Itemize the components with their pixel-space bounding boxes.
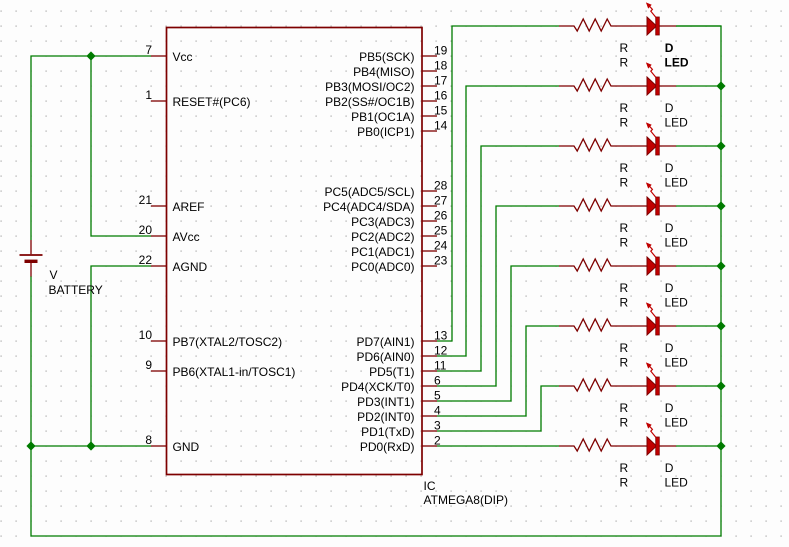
svg-text:LED: LED (665, 176, 689, 190)
svg-text:AGND: AGND (173, 260, 208, 274)
junction right rail at row 7 (716, 381, 725, 390)
wire PD2 pin to LED row 6 (437, 326, 559, 416)
svg-text:D: D (665, 41, 674, 55)
pin 24 PC1(ADC1) (right) (351, 239, 448, 260)
junction right rail at row 5 (716, 261, 725, 270)
svg-text:5: 5 (434, 389, 441, 403)
pin 23 PC0(ADC0) (right) (351, 254, 448, 275)
pin 26 PC3(ADC3) (right) (351, 209, 448, 230)
svg-text:22: 22 (139, 253, 153, 267)
svg-text:2: 2 (434, 434, 441, 448)
svg-text:PD6(AIN0): PD6(AIN0) (356, 350, 414, 364)
junction VCC node at (91,56) (86, 51, 95, 60)
svg-text:R: R (620, 296, 629, 310)
svg-text:Vcc: Vcc (173, 50, 193, 64)
junction right rail at row 6 (716, 321, 725, 330)
pin 21 AREF (left) (139, 193, 205, 214)
svg-text:PD3(INT1): PD3(INT1) (357, 395, 414, 409)
svg-text:11: 11 (434, 359, 447, 373)
pin 6 PD4(XCK/T0) (right) (341, 374, 441, 395)
svg-text:D: D (665, 401, 674, 415)
svg-text:PB4(MISO): PB4(MISO) (353, 65, 414, 79)
resistor R (row 8) (559, 439, 647, 451)
svg-text:PD5(T1): PD5(T1) (369, 365, 414, 379)
svg-text:PD2(INT0): PD2(INT0) (357, 410, 414, 424)
wire VCC: battery + to pin 7 Vcc (31, 56, 151, 240)
pin 9 PB6(XTAL1-in/TOSC1) (left) (145, 358, 295, 379)
svg-text:PB2(SS#/OC1B): PB2(SS#/OC1B) (325, 95, 414, 109)
svg-text:RESET#(PC6): RESET#(PC6) (173, 95, 251, 109)
pin 7 Vcc (left) (145, 43, 192, 64)
svg-text:4: 4 (434, 404, 441, 418)
svg-text:R: R (620, 56, 629, 70)
svg-text:26: 26 (434, 209, 448, 223)
svg-text:R: R (620, 176, 629, 190)
IC ATMEGA8(DIP) body (167, 28, 423, 475)
svg-text:PD4(XCK/T0): PD4(XCK/T0) (341, 380, 414, 394)
wire VCC branch to AVcc pin 20 (91, 56, 151, 236)
svg-text:15: 15 (434, 104, 448, 118)
pin 14 PB0(ICP1) (right) (357, 119, 448, 140)
pin 8 GND (left) (145, 433, 199, 454)
wire LED row 7 cathode to right rail (676, 385, 721, 387)
svg-text:PD0(RxD): PD0(RxD) (360, 440, 415, 454)
svg-text:24: 24 (434, 239, 448, 253)
LED D (row 8) (646, 422, 676, 455)
pin 3 PD1(TxD) (right) (361, 419, 441, 440)
pin 25 PC2(ADC2) (right) (351, 224, 448, 245)
svg-text:PB3(MOSI/OC2): PB3(MOSI/OC2) (325, 80, 414, 94)
LED D (row 6) (646, 302, 676, 335)
svg-text:GND: GND (173, 440, 200, 454)
wire LED row 5 cathode to right rail (676, 265, 721, 267)
LED D (row 1) (646, 2, 676, 35)
svg-text:3: 3 (434, 419, 441, 433)
resistor R (row 1) (559, 19, 647, 31)
svg-text:LED: LED (665, 236, 689, 250)
junction right rail at row 8 (716, 441, 725, 450)
svg-text:R: R (620, 41, 629, 55)
svg-text:25: 25 (434, 224, 448, 238)
svg-text:D: D (665, 461, 674, 475)
svg-text:AVcc: AVcc (173, 230, 200, 244)
pin 18 PB4(MISO) (right) (353, 59, 448, 80)
svg-text:LED: LED (665, 116, 689, 130)
pin 1 RESET#(PC6) (left) (145, 88, 250, 109)
LED D (row 7) (646, 362, 676, 395)
svg-text:PB0(ICP1): PB0(ICP1) (357, 125, 414, 139)
pin 13 PD7(AIN1) (right) (356, 329, 447, 350)
svg-text:19: 19 (434, 44, 448, 58)
pin 4 PD2(INT0) (right) (357, 404, 441, 425)
svg-text:LED: LED (665, 56, 689, 70)
resistor R (row 3) (559, 139, 647, 151)
svg-text:R: R (620, 401, 629, 415)
svg-text:R: R (620, 461, 629, 475)
pin 28 PC5(ADC5/SCL) (right) (324, 179, 447, 200)
wire PD5 pin to LED row 3 (437, 146, 559, 371)
LED D (row 3) (646, 122, 676, 155)
svg-text:R: R (620, 236, 629, 250)
svg-text:D: D (665, 221, 674, 235)
svg-text:18: 18 (434, 59, 448, 73)
pin 10 PB7(XTAL2/TOSC2) (left) (139, 328, 282, 349)
svg-text:PC4(ADC4/SDA): PC4(ADC4/SDA) (323, 200, 414, 214)
svg-text:D: D (665, 161, 674, 175)
wire PD0 pin to LED row 8 (437, 445, 559, 447)
resistor R (row 2) (559, 79, 647, 91)
pin 17 PB3(MOSI/OC2) (right) (325, 74, 448, 95)
wire GND: pin 8 GND to battery - (31, 445, 151, 447)
svg-text:17: 17 (434, 74, 448, 88)
wire LED row 1 cathode to right rail (676, 25, 721, 27)
resistor R (row 4) (559, 199, 647, 211)
svg-text:23: 23 (434, 254, 448, 268)
svg-text:1: 1 (145, 88, 152, 102)
pin 22 AGND (left) (139, 253, 208, 274)
svg-text:27: 27 (434, 194, 448, 208)
svg-text:R: R (620, 221, 629, 235)
svg-text:8: 8 (145, 433, 152, 447)
svg-text:PC5(ADC5/SCL): PC5(ADC5/SCL) (324, 185, 414, 199)
resistor R (row 5) (559, 259, 647, 271)
svg-text:21: 21 (139, 193, 153, 207)
wire PD4 pin to LED row 4 (437, 206, 559, 386)
svg-text:6: 6 (434, 374, 441, 388)
svg-text:R: R (620, 161, 629, 175)
wire PD1 pin to LED row 7 (437, 386, 559, 431)
svg-text:14: 14 (434, 119, 448, 133)
svg-text:28: 28 (434, 179, 448, 193)
junction right rail at row 4 (716, 201, 725, 210)
svg-text:PC1(ADC1): PC1(ADC1) (351, 245, 414, 259)
pin 15 PB1(OC1A) (right) (351, 104, 448, 125)
svg-text:LED: LED (665, 476, 689, 490)
svg-text:PD1(TxD): PD1(TxD) (361, 425, 414, 439)
wire PD7 pin to LED row 1 (437, 26, 559, 341)
pin 27 PC4(ADC4/SDA) (right) (323, 194, 448, 215)
junction GND node at (31,446) (26, 441, 35, 450)
wire GND: AGND pin 22 down to GND row (91, 266, 151, 446)
svg-text:R: R (620, 356, 629, 370)
LED D (row 5) (646, 242, 676, 275)
pin 16 PB2(SS#/OC1B) (right) (325, 89, 448, 110)
pin 2 PD0(RxD) (right) (360, 434, 441, 455)
svg-text:16: 16 (434, 89, 448, 103)
svg-text:PB5(SCK): PB5(SCK) (359, 50, 414, 64)
svg-text:PC3(ADC3): PC3(ADC3) (351, 215, 414, 229)
LED D (row 4) (646, 182, 676, 215)
svg-text:12: 12 (434, 344, 448, 358)
svg-text:PC0(ADC0): PC0(ADC0) (351, 260, 414, 274)
pin 12 PD6(AIN0) (right) (356, 344, 447, 365)
wire LED row 2 cathode to right rail (676, 85, 721, 87)
svg-text:D: D (665, 341, 674, 355)
wire PD6 pin to LED row 2 (437, 86, 559, 356)
svg-text:LED: LED (665, 416, 689, 430)
svg-text:R: R (620, 341, 629, 355)
svg-text:BATTERY: BATTERY (49, 283, 103, 297)
LED D (row 2) (646, 62, 676, 95)
svg-text:V: V (50, 268, 58, 282)
pin 11 PD5(T1) (right) (369, 359, 447, 380)
svg-text:10: 10 (139, 328, 153, 342)
svg-text:9: 9 (145, 358, 152, 372)
svg-text:ATMEGA8(DIP): ATMEGA8(DIP) (424, 493, 508, 507)
svg-text:R: R (620, 281, 629, 295)
resistor R (row 7) (559, 379, 647, 391)
pin 5 PD3(INT1) (right) (357, 389, 441, 410)
junction right rail at row 3 (716, 141, 725, 150)
pin 19 PB5(SCK) (right) (359, 44, 448, 65)
svg-text:AREF: AREF (173, 200, 205, 214)
svg-text:R: R (620, 116, 629, 130)
wire LED row 4 cathode to right rail (676, 205, 721, 207)
battery V BATTERY (20, 240, 43, 277)
svg-text:LED: LED (665, 296, 689, 310)
svg-text:R: R (620, 101, 629, 115)
svg-text:R: R (620, 416, 629, 430)
svg-text:PD7(AIN1): PD7(AIN1) (356, 335, 414, 349)
svg-text:PC2(ADC2): PC2(ADC2) (351, 230, 414, 244)
svg-text:20: 20 (139, 223, 153, 237)
svg-text:PB1(OC1A): PB1(OC1A) (351, 110, 414, 124)
wire LED row 8 cathode to right rail (676, 445, 721, 447)
resistor R (row 6) (559, 319, 647, 331)
wire LED row 3 cathode to right rail (676, 145, 721, 147)
svg-text:D: D (665, 281, 674, 295)
svg-text:13: 13 (434, 329, 448, 343)
svg-text:D: D (665, 101, 674, 115)
svg-text:PB6(XTAL1-in/TOSC1): PB6(XTAL1-in/TOSC1) (173, 365, 296, 379)
wire LED row 6 cathode to right rail (676, 325, 721, 327)
svg-text:7: 7 (145, 43, 152, 57)
svg-text:R: R (620, 476, 629, 490)
junction GND node at (91,446) (86, 441, 95, 450)
svg-text:LED: LED (665, 356, 689, 370)
pin 20 AVcc (left) (139, 223, 200, 244)
svg-text:IC: IC (424, 479, 436, 493)
svg-text:PB7(XTAL2/TOSC2): PB7(XTAL2/TOSC2) (173, 335, 283, 349)
junction right rail at row 2 (716, 81, 725, 90)
wire PD3 pin to LED row 5 (437, 266, 559, 401)
